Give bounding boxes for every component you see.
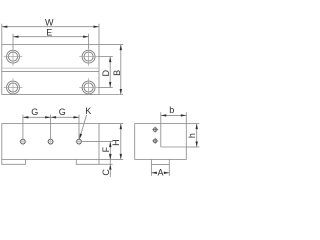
label h <box>187 133 197 138</box>
hole 1 (front view) <box>19 138 26 145</box>
hole bottom-left (top view) <box>4 78 23 94</box>
top view seam line lower <box>2 70 99 72</box>
label D <box>101 69 111 76</box>
front view right foot <box>76 159 99 164</box>
dimension h line <box>186 124 199 147</box>
hole 2 (front view) <box>47 138 54 145</box>
svg-text:F: F <box>101 146 111 152</box>
dimension A line <box>151 172 169 174</box>
svg-text:G: G <box>59 107 66 117</box>
dimension b line <box>161 112 187 123</box>
hole top-right (top view) <box>79 47 98 66</box>
svg-text:H: H <box>111 139 121 146</box>
hole bottom-right (top view) <box>79 78 98 94</box>
label b <box>169 105 174 115</box>
svg-text:W: W <box>45 17 54 27</box>
hole top-left (top view) <box>4 47 23 66</box>
label G left <box>31 107 38 117</box>
label K <box>85 106 91 116</box>
dimension W line <box>2 24 99 45</box>
svg-text:B: B <box>112 70 122 76</box>
label W <box>45 17 54 27</box>
front view left foot <box>2 159 26 164</box>
dimension G line <box>23 115 79 140</box>
side view tongue <box>151 159 169 175</box>
side hole upper <box>152 127 158 133</box>
front view body <box>2 124 99 160</box>
svg-text:b: b <box>169 105 174 115</box>
svg-text:A: A <box>157 167 163 177</box>
hole 3 (front view) <box>75 138 82 145</box>
side view pocket bottom edge <box>161 146 187 148</box>
side view body <box>135 124 187 160</box>
label A <box>157 167 163 177</box>
top view body <box>2 45 99 95</box>
dimension H line <box>99 124 123 160</box>
svg-text:E: E <box>46 27 52 37</box>
dimension B line <box>99 45 123 95</box>
svg-text:h: h <box>187 133 197 138</box>
dimension E line <box>13 34 89 49</box>
svg-text:G: G <box>31 107 38 117</box>
label C <box>101 169 111 176</box>
svg-text:C: C <box>101 169 111 176</box>
side hole lower <box>152 138 158 144</box>
leader K <box>79 115 86 139</box>
side view pocket left edge <box>160 124 162 147</box>
top view seam line upper <box>2 67 99 69</box>
label B <box>112 70 122 76</box>
dimension D line <box>98 57 113 88</box>
dimension F line <box>82 142 113 160</box>
label E <box>46 27 52 37</box>
dimension C line <box>99 154 113 178</box>
label G right <box>59 107 66 117</box>
svg-text:D: D <box>101 69 111 76</box>
label H <box>111 139 121 146</box>
svg-text:K: K <box>85 106 91 116</box>
label F <box>101 146 111 152</box>
